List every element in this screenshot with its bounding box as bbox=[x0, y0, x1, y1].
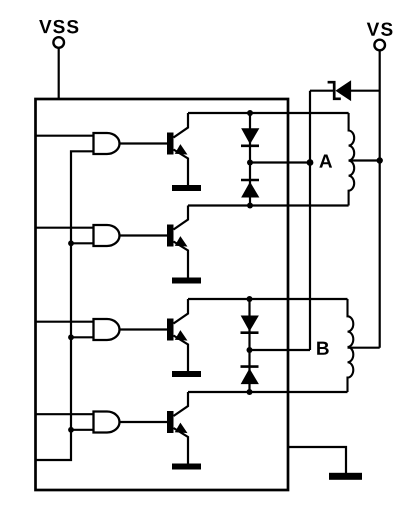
svg-text:A: A bbox=[319, 152, 333, 173]
wire gate G4 output to Q4 base bbox=[120, 421, 168, 423]
svg-text:VS: VS bbox=[367, 20, 395, 41]
and-gate G4 bbox=[94, 412, 120, 433]
transistor Q4 emitter arrow bbox=[176, 424, 187, 433]
transistor Q2 collector bbox=[174, 206, 189, 230]
and-gate G1 bbox=[94, 133, 120, 154]
wire input top gate G1 bbox=[36, 135, 94, 137]
junction D4 bottom bbox=[247, 389, 253, 395]
wire zener net vertical bbox=[309, 91, 311, 350]
svg-text:B: B bbox=[316, 339, 330, 360]
wire gate G1 output to Q1 base bbox=[120, 142, 168, 144]
and-gate G2 bbox=[94, 225, 120, 246]
junction D1 top bbox=[247, 110, 253, 116]
wire collector rail 3 bbox=[188, 298, 348, 300]
diode column A wire bbox=[249, 113, 251, 206]
wire winding A center tap bbox=[349, 159, 380, 161]
transistor Q1 base bar bbox=[167, 133, 174, 155]
transistor Q4 base bar bbox=[167, 411, 174, 433]
diode D4 cathode bar bbox=[241, 365, 259, 368]
diode column B wire bbox=[248, 299, 250, 392]
zener diode cathode bar bbox=[328, 82, 341, 99]
diode D1 body bbox=[242, 129, 259, 143]
wire input top gate G2 bbox=[36, 227, 94, 229]
transistor Q1 emitter bbox=[174, 150, 189, 186]
wire bottom input gate G4 bbox=[71, 429, 94, 431]
junction diode mid A bbox=[247, 160, 253, 166]
wire winding B center tap bbox=[348, 347, 380, 349]
ground of Q3 bbox=[172, 371, 201, 377]
ground bottom right bbox=[329, 473, 362, 480]
transistor Q3 emitter arrow bbox=[176, 331, 187, 340]
node A junction bbox=[307, 159, 314, 166]
wire gate G1 bottom input / bus bbox=[36, 151, 94, 460]
junction D2 bottom bbox=[247, 203, 253, 209]
junction bus-gate G3 bbox=[68, 334, 74, 340]
wire collector rail 1 bbox=[188, 112, 349, 114]
ground of Q4 bbox=[172, 464, 201, 470]
ground of Q2 bbox=[172, 278, 201, 284]
transistor Q4 emitter bbox=[174, 428, 189, 464]
transistor Q4 collector bbox=[174, 392, 189, 416]
transistor Q3 collector bbox=[174, 299, 189, 324]
wire collector rail 2 bbox=[188, 204, 349, 206]
transistor Q3 base bar bbox=[167, 319, 174, 341]
wire bottom input gate G3 bbox=[71, 336, 94, 338]
junction D3 top bbox=[247, 296, 253, 302]
diode D4 body bbox=[242, 369, 259, 383]
wire diode mid A to node A bbox=[250, 161, 310, 163]
junction diode mid B bbox=[247, 347, 253, 353]
junction bus-gate G4 bbox=[68, 427, 74, 433]
svg-text:VSS: VSS bbox=[39, 17, 80, 38]
terminal VSS bbox=[53, 37, 64, 48]
winding A coil bbox=[349, 113, 355, 206]
transistor Q2 base bar bbox=[167, 225, 174, 247]
wire collector rail 4 bbox=[188, 391, 348, 393]
diode D2 body bbox=[242, 183, 259, 197]
wire bottom input gate G2 bbox=[71, 242, 94, 244]
transistor Q1 collector bbox=[174, 113, 189, 138]
wire input top gate G4 bbox=[36, 413, 94, 415]
wire box to ground bbox=[288, 447, 346, 473]
transistor Q3 emitter bbox=[174, 336, 189, 372]
diode D3 body bbox=[242, 316, 259, 330]
wire input top gate G3 bbox=[36, 321, 94, 323]
wire diode mid B to zener net bbox=[250, 349, 311, 351]
wire zener to VS bbox=[351, 90, 380, 92]
zener diode body bbox=[336, 81, 350, 100]
wire VSS to box bbox=[58, 48, 60, 100]
ground of Q1 bbox=[172, 185, 201, 191]
wire gate G3 output to Q3 base bbox=[120, 328, 168, 330]
diode D2 cathode bar bbox=[241, 179, 259, 182]
wire zener anode side bbox=[310, 90, 334, 92]
IC box outline bbox=[36, 99, 289, 490]
terminal VS bbox=[374, 40, 385, 51]
diode D3 cathode bar bbox=[241, 331, 259, 334]
wire VS rail bbox=[379, 51, 381, 348]
transistor Q2 emitter bbox=[174, 242, 189, 278]
winding B coil bbox=[348, 299, 354, 392]
diode D1 cathode bar bbox=[241, 145, 259, 148]
transistor Q1 emitter arrow bbox=[176, 145, 187, 154]
junction bus-gate G2 bbox=[68, 240, 74, 246]
junction tap A on VS rail bbox=[377, 157, 383, 163]
wire gate G2 output to Q2 base bbox=[120, 234, 168, 236]
and-gate G3 bbox=[94, 319, 120, 340]
transistor Q2 emitter arrow bbox=[176, 237, 187, 246]
